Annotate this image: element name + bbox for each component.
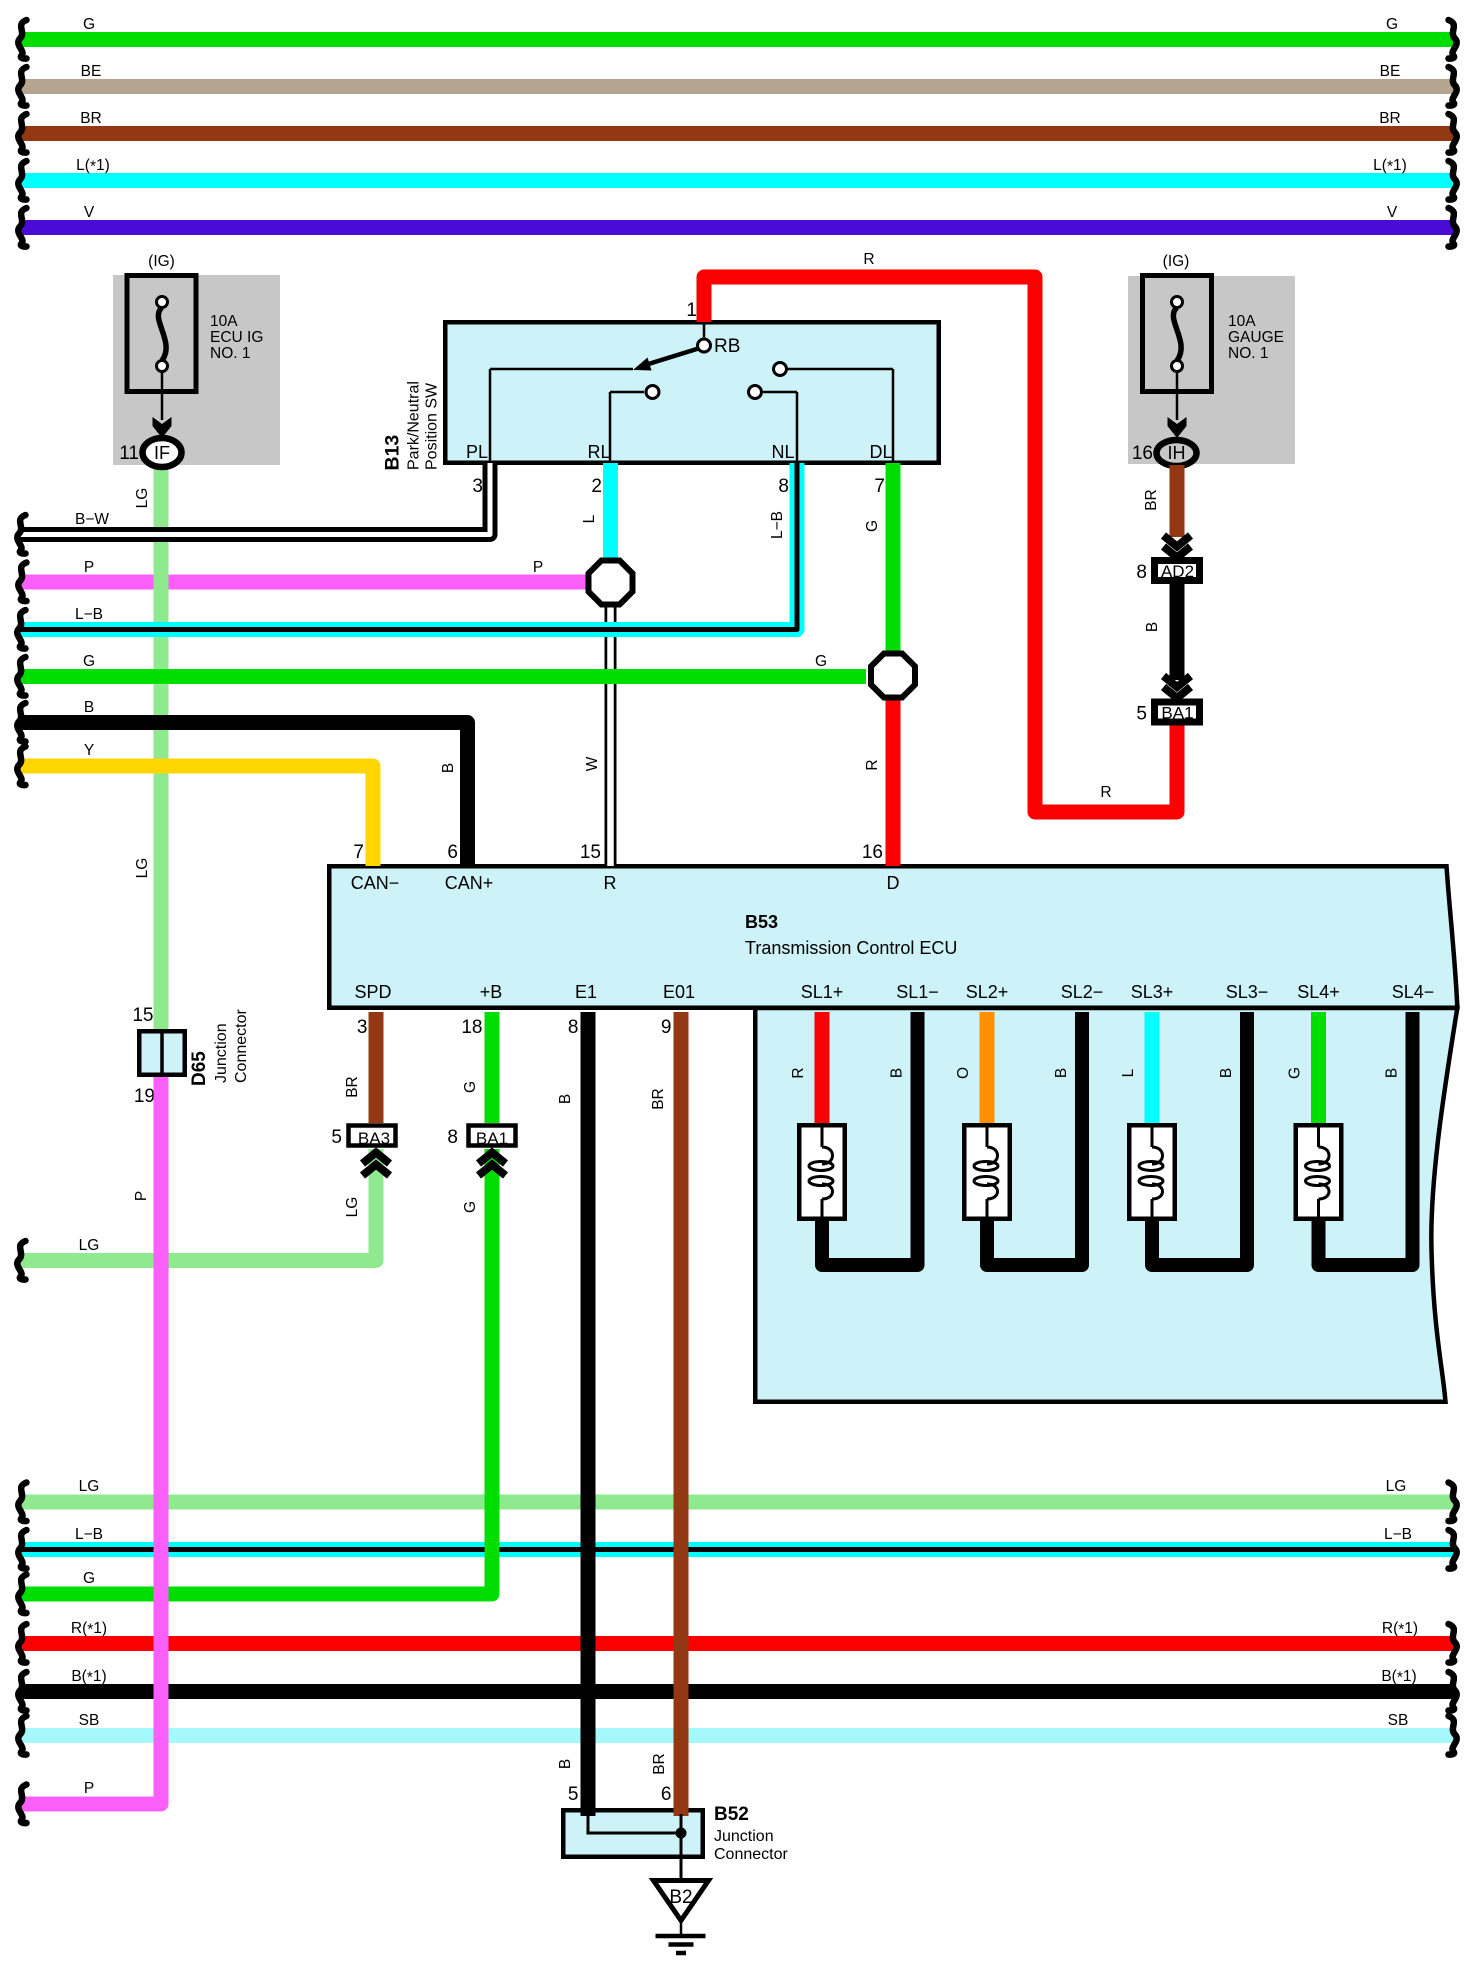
svg-text:L−B: L−B <box>75 606 103 623</box>
svg-text:2: 2 <box>591 476 602 497</box>
svg-text:7: 7 <box>353 842 364 863</box>
svg-text:SB: SB <box>1388 1712 1409 1729</box>
svg-text:LG: LG <box>134 858 151 879</box>
svg-text:L: L <box>581 514 598 523</box>
svg-text:BR: BR <box>650 1088 667 1110</box>
svg-text:B: B <box>1144 622 1161 632</box>
svg-text:3: 3 <box>472 476 483 497</box>
svg-text:BR: BR <box>344 1076 361 1098</box>
svg-text:LG: LG <box>1386 1478 1407 1495</box>
svg-text:BA1: BA1 <box>1161 704 1193 723</box>
svg-text:G: G <box>815 653 827 670</box>
svg-text:P: P <box>84 559 94 576</box>
svg-text:Y: Y <box>84 742 94 759</box>
svg-text:BR: BR <box>80 110 102 127</box>
svg-text:BR: BR <box>651 1753 668 1775</box>
svg-text:BE: BE <box>1380 63 1401 80</box>
svg-text:R(*1): R(*1) <box>1382 1620 1418 1639</box>
svg-text:SL3−: SL3− <box>1226 982 1269 1002</box>
svg-text:E1: E1 <box>575 982 597 1002</box>
svg-text:NO. 1: NO. 1 <box>1228 345 1268 362</box>
svg-text:L(*1): L(*1) <box>76 157 110 176</box>
svg-text:LG: LG <box>79 1237 100 1254</box>
svg-text:SL4−: SL4− <box>1392 982 1435 1002</box>
svg-text:15: 15 <box>132 1005 153 1026</box>
svg-text:LG: LG <box>344 1197 361 1218</box>
svg-text:G: G <box>462 1081 479 1093</box>
svg-text:R: R <box>604 873 617 893</box>
svg-text:SL3+: SL3+ <box>1131 982 1174 1002</box>
svg-text:18: 18 <box>461 1017 482 1038</box>
svg-text:B(*1): B(*1) <box>71 1668 106 1687</box>
svg-text:8: 8 <box>778 476 789 497</box>
svg-text:NL: NL <box>771 442 794 462</box>
svg-text:D: D <box>887 873 900 893</box>
svg-text:G: G <box>864 520 881 532</box>
svg-text:R: R <box>790 1067 807 1078</box>
svg-text:G: G <box>83 16 95 33</box>
svg-text:+B: +B <box>480 982 503 1002</box>
svg-text:B: B <box>1384 1068 1401 1078</box>
svg-text:B: B <box>889 1068 906 1078</box>
svg-text:G: G <box>1287 1067 1304 1079</box>
svg-text:G: G <box>83 1570 95 1587</box>
svg-text:SB: SB <box>79 1712 100 1729</box>
svg-text:IH: IH <box>1168 443 1186 463</box>
svg-text:11: 11 <box>119 443 139 464</box>
svg-text:B53: B53 <box>745 912 778 932</box>
svg-text:V: V <box>84 204 95 221</box>
svg-text:BE: BE <box>81 63 102 80</box>
svg-text:B: B <box>1053 1068 1070 1078</box>
svg-text:BR: BR <box>1379 110 1401 127</box>
svg-text:SL1−: SL1− <box>896 982 939 1002</box>
svg-text:8: 8 <box>447 1127 458 1148</box>
svg-text:3: 3 <box>357 1017 368 1038</box>
svg-text:Junction: Junction <box>213 1023 230 1083</box>
svg-text:L−B: L−B <box>75 1526 103 1543</box>
svg-text:B: B <box>84 699 94 716</box>
svg-text:R(*1): R(*1) <box>71 1620 107 1639</box>
svg-text:BR: BR <box>1143 489 1160 511</box>
svg-text:1: 1 <box>686 300 697 321</box>
svg-text:BA1: BA1 <box>476 1129 508 1148</box>
svg-text:B(*1): B(*1) <box>1381 1668 1416 1687</box>
svg-text:P: P <box>84 1780 94 1797</box>
svg-text:NO. 1: NO. 1 <box>210 345 250 362</box>
svg-text:IF: IF <box>154 443 170 463</box>
svg-text:AD2: AD2 <box>1161 562 1194 581</box>
svg-text:SPD: SPD <box>354 982 391 1002</box>
svg-text:D65: D65 <box>189 1051 210 1086</box>
svg-text:L−B: L−B <box>769 511 786 539</box>
svg-text:CAN+: CAN+ <box>445 873 494 893</box>
svg-text:Park/Neutral: Park/Neutral <box>406 381 423 470</box>
svg-text:BA3: BA3 <box>358 1129 390 1148</box>
svg-text:G: G <box>462 1201 479 1213</box>
svg-text:6: 6 <box>661 1784 672 1805</box>
svg-text:P: P <box>533 559 543 576</box>
svg-text:E01: E01 <box>663 982 695 1002</box>
svg-text:(IG): (IG) <box>1163 253 1190 270</box>
svg-text:16: 16 <box>1132 443 1153 464</box>
svg-text:L(*1): L(*1) <box>1373 157 1407 176</box>
svg-text:ECU IG: ECU IG <box>210 329 263 346</box>
svg-text:5: 5 <box>331 1127 342 1148</box>
svg-text:R: R <box>864 759 881 770</box>
svg-text:RL: RL <box>587 442 610 462</box>
svg-text:8: 8 <box>568 1017 579 1038</box>
svg-text:5: 5 <box>1136 704 1147 725</box>
svg-text:Junction: Junction <box>714 1828 774 1845</box>
svg-text:SL1+: SL1+ <box>801 982 844 1002</box>
svg-text:R: R <box>1100 784 1111 801</box>
svg-text:LG: LG <box>79 1478 100 1495</box>
svg-text:CAN−: CAN− <box>351 873 400 893</box>
svg-text:PL: PL <box>466 442 488 462</box>
svg-text:16: 16 <box>862 842 883 863</box>
svg-text:Transmission Control ECU: Transmission Control ECU <box>745 938 957 958</box>
svg-text:B2: B2 <box>669 1887 692 1908</box>
svg-text:RB: RB <box>714 336 740 357</box>
svg-text:DL: DL <box>869 442 892 462</box>
svg-text:L: L <box>1120 1068 1137 1077</box>
svg-text:10A: 10A <box>1228 313 1256 330</box>
svg-text:5: 5 <box>568 1784 579 1805</box>
svg-text:B13: B13 <box>382 435 404 471</box>
svg-text:P: P <box>133 1191 150 1201</box>
svg-text:7: 7 <box>874 476 885 497</box>
svg-text:B: B <box>557 1094 574 1104</box>
svg-text:Position SW: Position SW <box>424 382 441 470</box>
svg-text:Connector: Connector <box>233 1009 250 1083</box>
svg-text:G: G <box>83 653 95 670</box>
svg-text:SL2+: SL2+ <box>966 982 1009 1002</box>
svg-text:R: R <box>863 251 874 268</box>
svg-text:B52: B52 <box>714 1804 749 1825</box>
svg-text:W: W <box>584 756 601 771</box>
svg-text:(IG): (IG) <box>148 253 175 270</box>
svg-text:B: B <box>1218 1068 1235 1078</box>
svg-text:SL4+: SL4+ <box>1297 982 1340 1002</box>
svg-text:SL2−: SL2− <box>1061 982 1104 1002</box>
svg-text:V: V <box>1387 204 1398 221</box>
svg-text:GAUGE: GAUGE <box>1228 329 1284 346</box>
svg-text:6: 6 <box>447 842 458 863</box>
svg-text:9: 9 <box>661 1017 672 1038</box>
svg-text:B: B <box>440 763 457 773</box>
svg-text:B: B <box>557 1759 574 1769</box>
svg-text:Connector: Connector <box>714 1846 788 1863</box>
svg-text:G: G <box>1386 16 1398 33</box>
svg-text:L−B: L−B <box>1384 1526 1412 1543</box>
svg-text:8: 8 <box>1136 562 1147 583</box>
svg-text:15: 15 <box>580 842 601 863</box>
svg-text:O: O <box>955 1067 972 1079</box>
svg-text:LG: LG <box>134 488 151 509</box>
svg-text:B−W: B−W <box>75 511 109 528</box>
svg-text:19: 19 <box>134 1086 155 1107</box>
svg-text:10A: 10A <box>210 313 238 330</box>
